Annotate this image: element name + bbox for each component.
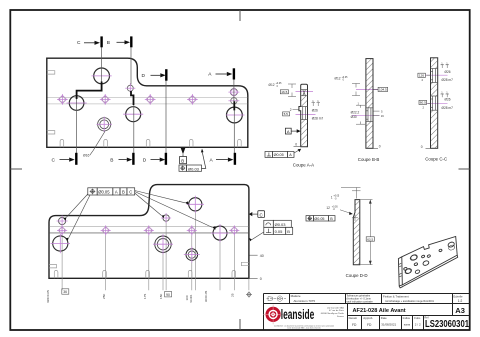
bv ring hole xyxy=(184,247,200,263)
svg-text:0: 0 xyxy=(295,143,297,147)
bottom tab 1 xyxy=(54,270,58,278)
D-D fcf xyxy=(306,216,335,221)
svg-text:Ø0.03: Ø0.03 xyxy=(188,166,200,171)
top view groove line upper xyxy=(48,96,248,98)
row line dark xyxy=(50,225,249,227)
hole small below step xyxy=(125,83,135,93)
counterbore hole xyxy=(97,117,112,132)
svg-text:D: D xyxy=(142,73,146,79)
svg-text:B: B xyxy=(181,158,184,163)
A-A hatch upper band xyxy=(301,96,307,107)
diamond hole 2 xyxy=(100,94,111,105)
svg-text:microfraisage + anodisation ro: microfraisage + anodisation rouge RAL300… xyxy=(385,300,434,303)
iso plate left end face xyxy=(398,257,402,286)
C-C ticks lower xyxy=(441,94,450,97)
svg-text:Indice: Indice xyxy=(403,316,411,320)
C-C hatch top xyxy=(431,58,437,68)
A-A centerline lower xyxy=(296,113,316,115)
note diam16 xyxy=(83,131,105,157)
A-A bar outline xyxy=(299,84,308,146)
top view groove line lower xyxy=(48,103,248,105)
bv big circle top xyxy=(187,196,204,213)
A-A boxed 5.5 xyxy=(283,112,290,116)
svg-text:Folio: Folio xyxy=(414,316,421,320)
svg-text:2: 2 xyxy=(290,108,292,112)
svg-text:sans: sans xyxy=(404,323,411,327)
svg-text:sauf indication contraire: sauf indication contraire xyxy=(346,301,373,304)
bottom tab 4 xyxy=(188,270,192,278)
bottom view part outline xyxy=(49,185,249,279)
C-C boxed 60.5 xyxy=(419,100,430,109)
B-B internal bore lines xyxy=(366,108,373,122)
svg-text:16.5: 16.5 xyxy=(281,90,287,94)
iso hole 1 xyxy=(410,254,418,261)
top view part outline xyxy=(47,58,248,147)
svg-text:Coupe B-B: Coupe B-B xyxy=(358,157,380,162)
bv diamond 1 xyxy=(57,225,67,235)
svg-text:25: 25 xyxy=(231,293,235,297)
D-D right dim 63.5 xyxy=(360,200,374,265)
A-A datum A flag xyxy=(285,128,300,134)
svg-text:A: A xyxy=(287,129,290,134)
C-C hatch middle xyxy=(431,83,437,97)
iso hole 4 xyxy=(414,262,418,266)
position symbol right of dims xyxy=(246,292,252,298)
svg-text:leanside: leanside xyxy=(281,307,315,322)
svg-text:0: 0 xyxy=(421,145,423,149)
C-C centerline upper xyxy=(424,74,448,76)
D-D top dim 1 xyxy=(331,188,361,201)
A-A zero mark xyxy=(294,143,301,147)
svg-text:Ø26: Ø26 xyxy=(312,108,318,112)
B-B hatch upper xyxy=(366,59,372,108)
iso plate face xyxy=(402,237,457,285)
svg-text:C: C xyxy=(77,40,81,46)
svg-text:150: 150 xyxy=(159,294,163,299)
svg-text:Ø12: Ø12 xyxy=(269,83,275,87)
A-A small dims 1 1 xyxy=(312,103,321,107)
svg-text:93.301: 93.301 xyxy=(189,294,193,302)
svg-text:Ø12: Ø12 xyxy=(335,77,341,81)
hole big circle left xyxy=(67,96,87,111)
section label D bottom xyxy=(143,157,165,163)
right dim 0 xyxy=(250,277,262,281)
svg-text:326±0.05: 326±0.05 xyxy=(46,290,50,303)
D-D top dim 12 xyxy=(326,206,358,221)
A-A centerline upper xyxy=(296,91,314,93)
B-B dims 5 16 xyxy=(373,111,379,115)
centering tick right xyxy=(459,168,470,170)
svg-text:12: 12 xyxy=(326,206,330,210)
bottom tab 5 xyxy=(232,270,236,278)
svg-text:0: 0 xyxy=(379,145,381,149)
datum C flag xyxy=(249,211,265,218)
bottom edge tab 3 xyxy=(146,139,150,147)
svg-text:36: 36 xyxy=(63,290,67,294)
hole circle mid xyxy=(123,107,143,122)
svg-text:90±0.05: 90±0.05 xyxy=(204,291,208,302)
svg-text:126: 126 xyxy=(419,74,424,78)
iso hole 10b xyxy=(448,244,456,251)
extension lines below holes xyxy=(62,211,249,290)
bottom edge tab 1 xyxy=(60,139,64,147)
diamond mark small hole A xyxy=(230,87,238,97)
section line A xyxy=(234,68,235,165)
svg-text:40: 40 xyxy=(260,254,264,258)
iso hole 2 small xyxy=(421,255,425,258)
svg-text:Ø16: Ø16 xyxy=(83,154,90,158)
svg-text:B: B xyxy=(110,157,113,163)
svg-text:0.05: 0.05 xyxy=(275,229,284,234)
svg-text:écrite de leanside SAS - tous: écrite de leanside SAS - tous droits rés… xyxy=(287,327,320,330)
svg-text:Ø0.05: Ø0.05 xyxy=(98,190,110,195)
title block frame xyxy=(264,294,470,330)
section line B xyxy=(131,36,134,164)
section line D xyxy=(165,69,167,165)
svg-text:Approb.: Approb. xyxy=(363,316,373,320)
svg-text:Ø28 m7: Ø28 m7 xyxy=(312,116,324,120)
bottom dim texts xyxy=(46,290,235,303)
A-A boxed 16.5 xyxy=(280,90,288,94)
centering tick top xyxy=(239,10,241,21)
bv diamond 5 xyxy=(229,225,239,235)
C-C ticks upper xyxy=(441,65,450,68)
centering tick bottom xyxy=(239,319,241,330)
svg-text:Ø0.05: Ø0.05 xyxy=(274,153,284,157)
svg-text:+0.05: +0.05 xyxy=(276,83,283,85)
svg-text:1: 1 xyxy=(331,195,333,199)
hole big circle top-left xyxy=(92,68,112,84)
svg-text:Echelle: Echelle xyxy=(453,294,463,298)
iso hole 7 xyxy=(405,268,412,275)
svg-text:+0.05: +0.05 xyxy=(333,196,340,198)
svg-text:B: B xyxy=(122,190,125,195)
C-C hatch bottom xyxy=(431,110,437,148)
svg-text:Date: Date xyxy=(381,316,387,320)
svg-text:Matière: Matière xyxy=(291,294,301,298)
svg-text:Ø26: Ø26 xyxy=(445,70,451,74)
fcf position 5 cells xyxy=(88,188,135,195)
A-A dim diam12 xyxy=(269,83,297,97)
svg-text:C: C xyxy=(52,157,56,163)
svg-text:63.5: 63.5 xyxy=(367,237,373,241)
bv small circle mid xyxy=(161,213,171,223)
C-C internal bore lines window1 xyxy=(431,69,438,83)
datum B flag xyxy=(180,148,187,164)
left edge slot lower xyxy=(47,131,55,134)
section label C bottom xyxy=(52,157,75,163)
svg-text:Dessin: Dessin xyxy=(349,316,358,320)
svg-text:104.5: 104.5 xyxy=(379,88,387,92)
left edge slot upper xyxy=(47,71,55,74)
B-B bar outline xyxy=(366,59,373,149)
small box label near 326 xyxy=(62,289,69,294)
right edge slot xyxy=(241,262,249,265)
A-A fcf bottom xyxy=(265,149,301,158)
hole small right upper xyxy=(228,89,239,96)
bottom edge tab 5 xyxy=(238,139,242,147)
iso hole 9 small xyxy=(439,249,443,252)
svg-text:Coupe C-C: Coupe C-C xyxy=(425,157,447,162)
svg-text:60530 Neuilly-en-Thelle: 60530 Neuilly-en-Thelle xyxy=(321,313,345,315)
iso plate bottom thickness xyxy=(399,255,458,288)
section label C top xyxy=(77,40,100,46)
svg-text:D: D xyxy=(143,157,147,163)
bottom edge tab 4 xyxy=(189,139,193,147)
svg-text:0: 0 xyxy=(260,277,262,281)
iso hole 6 xyxy=(403,267,407,271)
svg-text:(C) leanside SAS: (C) leanside SAS xyxy=(327,306,344,309)
fcf two-row right xyxy=(264,220,293,234)
B-B centerline upper xyxy=(356,89,383,91)
svg-text:16: 16 xyxy=(381,114,385,118)
svg-text:31/08/2021: 31/08/2021 xyxy=(381,323,396,327)
fcf leaders xyxy=(67,191,213,238)
svg-text:1:2: 1:2 xyxy=(458,299,463,303)
B-B zero mark xyxy=(373,145,380,149)
svg-text:LS23060301: LS23060301 xyxy=(425,319,469,330)
svg-text:250: 250 xyxy=(102,294,106,299)
iso hole 8 xyxy=(415,269,421,274)
bv diamond 4 xyxy=(187,225,197,235)
svg-text:C: C xyxy=(260,212,263,217)
svg-text:+0.05: +0.05 xyxy=(342,77,349,79)
svg-text:Ø0.03: Ø0.03 xyxy=(275,222,287,227)
B-B boxed 104.5 xyxy=(373,87,387,91)
fcf position 0.03 xyxy=(179,149,206,172)
small box label near 150 xyxy=(165,292,172,297)
svg-text:100: 100 xyxy=(185,295,189,300)
bv small circle top-left xyxy=(57,216,68,227)
diamond hole 3 xyxy=(145,94,156,105)
svg-text:A3: A3 xyxy=(455,306,465,315)
iso hole 5 xyxy=(422,260,429,266)
svg-text:FD: FD xyxy=(352,323,357,327)
iso left end slots xyxy=(399,263,402,277)
section label D top xyxy=(142,73,166,79)
svg-text:France: France xyxy=(337,315,345,318)
C-C bar outline xyxy=(431,58,438,149)
B-B hatch lower xyxy=(366,122,372,148)
address text xyxy=(321,306,345,317)
svg-text:47 rue de Paris: 47 rue de Paris xyxy=(329,309,345,312)
svg-text:Coupe D-D: Coupe D-D xyxy=(346,273,368,278)
svg-text:60.5: 60.5 xyxy=(420,101,426,105)
section label A top xyxy=(208,72,232,78)
diamond hole 1 xyxy=(57,94,68,105)
fcf leader to edge xyxy=(252,232,264,240)
C-C zero mark xyxy=(421,145,430,149)
C-C boxed 126 xyxy=(418,73,430,82)
section line C xyxy=(76,36,101,164)
bottom tab 2 xyxy=(103,270,107,278)
iso hole 7b xyxy=(404,268,411,275)
bottom tab 3 xyxy=(146,270,150,278)
D-D hatch xyxy=(354,200,360,264)
diamond hole 4 xyxy=(187,94,198,105)
svg-text:175: 175 xyxy=(143,294,147,299)
left edge slot xyxy=(49,265,57,268)
svg-text:+0.05: +0.05 xyxy=(332,206,339,208)
svg-text:90: 90 xyxy=(166,293,170,297)
svg-text:B: B xyxy=(107,40,110,46)
svg-text:5.5: 5.5 xyxy=(284,112,289,116)
svg-text:Ø30: Ø30 xyxy=(351,115,357,119)
A-A dim 2 xyxy=(290,108,299,112)
svg-text:Ø0.05: Ø0.05 xyxy=(314,217,324,221)
B-B dim diam12 xyxy=(335,77,361,96)
bv counterbore xyxy=(153,234,173,254)
row line gray xyxy=(50,232,249,234)
hole big circle right xyxy=(226,107,245,123)
iso hole 3 small xyxy=(427,254,431,257)
svg-text:C: C xyxy=(129,190,132,195)
bv big circle right xyxy=(211,224,229,242)
right dim 40 xyxy=(250,254,264,258)
A-A internal bore lines xyxy=(301,90,308,120)
svg-text:Ø26: Ø26 xyxy=(445,98,451,102)
section label B bottom xyxy=(110,157,132,163)
centering tick left xyxy=(10,168,22,170)
bv diamond 3 xyxy=(144,225,154,235)
iso hole 1 depth xyxy=(409,254,417,261)
svg-text:AF21-028 Aile Avant: AF21-028 Aile Avant xyxy=(353,308,406,314)
bv big circle left xyxy=(51,234,70,253)
svg-text:A: A xyxy=(115,190,118,195)
svg-text:Ø28 m7: Ø28 m7 xyxy=(442,78,454,82)
svg-text:Aluminium 7075: Aluminium 7075 xyxy=(294,299,316,303)
svg-text:B: B xyxy=(287,229,290,234)
iso hole 10 right xyxy=(447,241,455,248)
bv diamond 2 xyxy=(101,225,111,235)
leader arrowheads xyxy=(63,201,215,240)
C-C centerline lower xyxy=(424,102,448,104)
bottom edge tab 2 xyxy=(104,139,108,147)
section label B top xyxy=(107,40,130,46)
A-A hatch lower xyxy=(301,120,307,147)
B-B centerline lower xyxy=(352,114,380,116)
svg-text:Coupe A-A: Coupe A-A xyxy=(293,163,314,168)
svg-text:2 / 2: 2 / 2 xyxy=(415,323,421,327)
svg-text:Ø28 m7: Ø28 m7 xyxy=(442,106,454,110)
D-D bar outline xyxy=(353,200,360,265)
C-C internal bore lines window2 xyxy=(431,96,438,110)
svg-text:Finition & Traitement: Finition & Traitement xyxy=(383,294,409,298)
projection symbol xyxy=(267,296,287,301)
logo bullseye xyxy=(263,305,283,325)
B-B small ticks xyxy=(356,105,365,124)
hole small right lower xyxy=(228,98,239,104)
section label A bottom xyxy=(210,157,234,163)
svg-text:FD: FD xyxy=(367,323,372,327)
